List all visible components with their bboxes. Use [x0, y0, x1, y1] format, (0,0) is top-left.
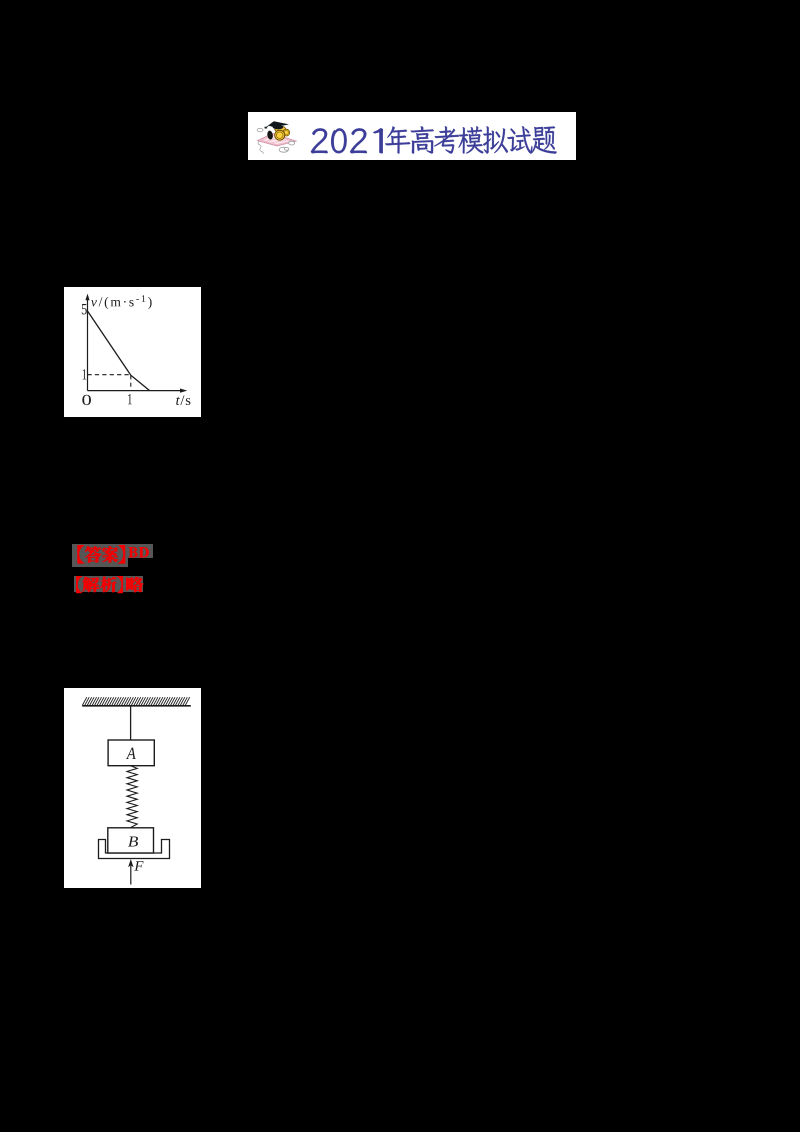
- graduation-cap icon: [250, 114, 302, 156]
- highlight box line2: [74, 576, 144, 592]
- clouds: [257, 128, 295, 152]
- coin pile back: [275, 126, 286, 132]
- force arrowhead: [128, 859, 133, 867]
- analysis line jiexi lue: [76, 576, 143, 593]
- pink paper inner sheen: [262, 135, 292, 144]
- label 5: [82, 304, 87, 314]
- highlight box line1 right: [128, 544, 153, 558]
- ceiling hatching: [82, 697, 190, 705]
- title text: [0, 0, 600, 170]
- squiggle thread: [258, 141, 263, 154]
- v-t curve: [88, 311, 150, 391]
- highlight box line1 left: [72, 544, 128, 568]
- cap board: [268, 121, 289, 127]
- label F: [134, 861, 143, 870]
- year digits 2021 and hanzi gaokao moni shiti: [311, 126, 557, 153]
- label 1 on y-axis: [83, 369, 87, 379]
- ceiling line: [82, 705, 191, 707]
- y-axis arrowhead: [85, 294, 89, 301]
- velocity-time graph: [64, 287, 201, 417]
- red answer text: [0, 0, 200, 620]
- coin right: [283, 129, 290, 136]
- block A: [108, 740, 154, 766]
- label 1 on x-axis: [128, 394, 132, 404]
- black cat blob: [267, 130, 274, 140]
- paper streak: [263, 138, 286, 143]
- pink paper: [258, 133, 297, 146]
- dashed guide vertical: [130, 375, 132, 390]
- x-axis arrowhead: [180, 389, 187, 393]
- answer line da-an BD: [77, 545, 148, 563]
- label v/(m s-1): [91, 300, 97, 306]
- tassel knot: [264, 127, 267, 129]
- tray under block B: [99, 840, 170, 859]
- block B: [108, 828, 154, 853]
- label A: [126, 748, 136, 759]
- string from ceiling to block A: [130, 706, 132, 740]
- x-axis: [88, 390, 184, 392]
- label B: [128, 837, 138, 847]
- spring-block diagram: [64, 688, 201, 888]
- y-axis: [87, 297, 89, 391]
- force arrow shaft: [130, 866, 132, 885]
- dashed guide horizontal: [88, 374, 131, 376]
- title banner strip: [248, 112, 576, 160]
- coin main: [275, 130, 285, 140]
- label 0: [82, 395, 91, 405]
- tassel cord: [267, 126, 269, 128]
- spring between A and B: [127, 766, 137, 828]
- cap crown: [272, 126, 283, 129]
- label t/s: [176, 397, 180, 405]
